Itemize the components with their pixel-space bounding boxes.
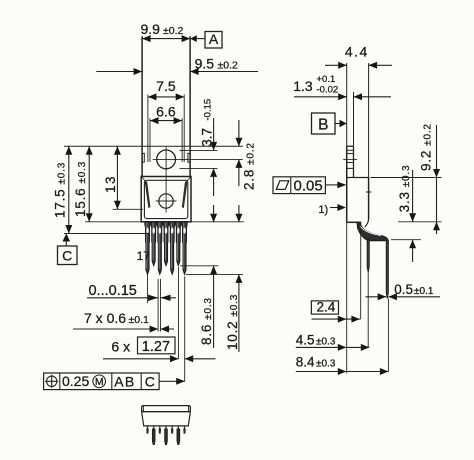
svg-text:17: 17 [137, 249, 151, 263]
svg-text:AB: AB [114, 373, 135, 389]
svg-text:0...0.15: 0...0.15 [89, 283, 137, 299]
svg-text:±0.3: ±0.3 [316, 359, 336, 370]
svg-text:0.05: 0.05 [294, 178, 323, 195]
svg-text:1): 1) [318, 204, 328, 216]
side view lead bend [357, 222, 389, 241]
tab side notches [142, 153, 144, 162]
bend hatch streak [361, 227, 382, 236]
hole centerline horizontal [153, 158, 243, 160]
bottom view leads [147, 426, 149, 429]
datum C triangle [63, 234, 71, 242]
svg-text:-0.02: -0.02 [317, 85, 339, 96]
svg-text:9.9: 9.9 [141, 21, 161, 37]
svg-text:8.6±0.3: 8.6±0.3 [199, 297, 214, 345]
svg-text:7.5: 7.5 [156, 78, 176, 94]
body bottom extension line right [191, 221, 244, 223]
bottom view body [142, 412, 191, 426]
svg-text:6 x: 6 x [111, 339, 130, 355]
extension verticals side view [346, 222, 348, 373]
feature control frame position 0.25 M A B C [44, 373, 160, 390]
svg-text:C: C [62, 247, 72, 263]
svg-text:1.3: 1.3 [293, 78, 313, 94]
tab serrations [347, 149, 354, 151]
svg-text:±0.2: ±0.2 [218, 60, 239, 72]
front view tab outline [141, 146, 143, 176]
body hole [159, 194, 173, 208]
svg-text:±0.2: ±0.2 [163, 25, 184, 37]
extension lines tab width [141, 36, 143, 146]
svg-text:-0.15: -0.15 [203, 99, 214, 121]
svg-text:2.4: 2.4 [317, 300, 336, 315]
dimension 2.4 basic [311, 301, 338, 314]
side view body [347, 177, 369, 179]
svg-text:2.8±0.2: 2.8±0.2 [242, 142, 257, 190]
hole tangent extension lines [180, 149, 218, 151]
svg-text:4.4: 4.4 [345, 44, 369, 60]
datum A [190, 35, 197, 42]
vertical centerline through holes [165, 147, 167, 213]
svg-text:±0.1: ±0.1 [414, 286, 434, 297]
leads front view [145, 222, 150, 275]
svg-text:A: A [209, 31, 219, 47]
mounting hole [157, 150, 176, 169]
svg-text:7 x 0.6: 7 x 0.6 [84, 310, 126, 326]
front view body [141, 177, 191, 222]
svg-text:1.27: 1.27 [142, 339, 170, 355]
svg-text:9.2±0.2: 9.2±0.2 [419, 123, 434, 171]
svg-text:C: C [145, 373, 155, 389]
front-row lead side view [367, 240, 369, 273]
flatness frame 0.05 [273, 177, 325, 194]
datum B [312, 113, 336, 134]
svg-text:±0.1: ±0.1 [129, 314, 150, 326]
svg-text:4.5: 4.5 [296, 333, 315, 348]
svg-text:±0.3: ±0.3 [316, 337, 336, 348]
body corner chamfer marks [141, 177, 146, 183]
svg-text:8.4: 8.4 [296, 355, 315, 370]
svg-text:6.6: 6.6 [156, 104, 176, 120]
svg-text:17.5±0.3: 17.5±0.3 [53, 162, 68, 218]
lead tip extension lines [180, 265, 219, 267]
tab top edge + extension line [64, 145, 243, 147]
svg-text:13: 13 [103, 175, 118, 193]
svg-text:0.5: 0.5 [394, 282, 413, 297]
svg-text:M: M [95, 376, 104, 388]
svg-text:+0.1: +0.1 [317, 74, 336, 85]
svg-text:15.6±0.3: 15.6±0.3 [73, 161, 88, 217]
bottom view tab strip [142, 406, 191, 412]
svg-text:3.3±0.3: 3.3±0.3 [397, 165, 412, 213]
svg-text:10.2±0.3: 10.2±0.3 [225, 294, 240, 350]
back-row lead side view [386, 241, 388, 299]
svg-text:0.25: 0.25 [62, 373, 89, 389]
svg-text:B: B [318, 117, 328, 134]
side view tab [346, 146, 348, 222]
